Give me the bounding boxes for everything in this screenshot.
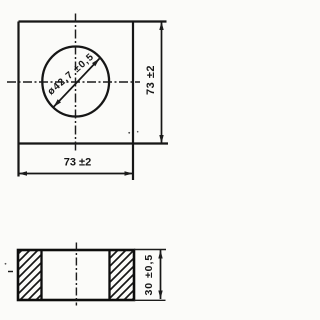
svg-text:73 ±2: 73 ±2 [64,157,91,169]
svg-text:73 ±2: 73 ±2 [145,65,157,95]
svg-text:30 ±0,5: 30 ±0,5 [143,254,155,296]
svg-text:ø42,7 ±0,5: ø42,7 ±0,5 [46,51,97,97]
